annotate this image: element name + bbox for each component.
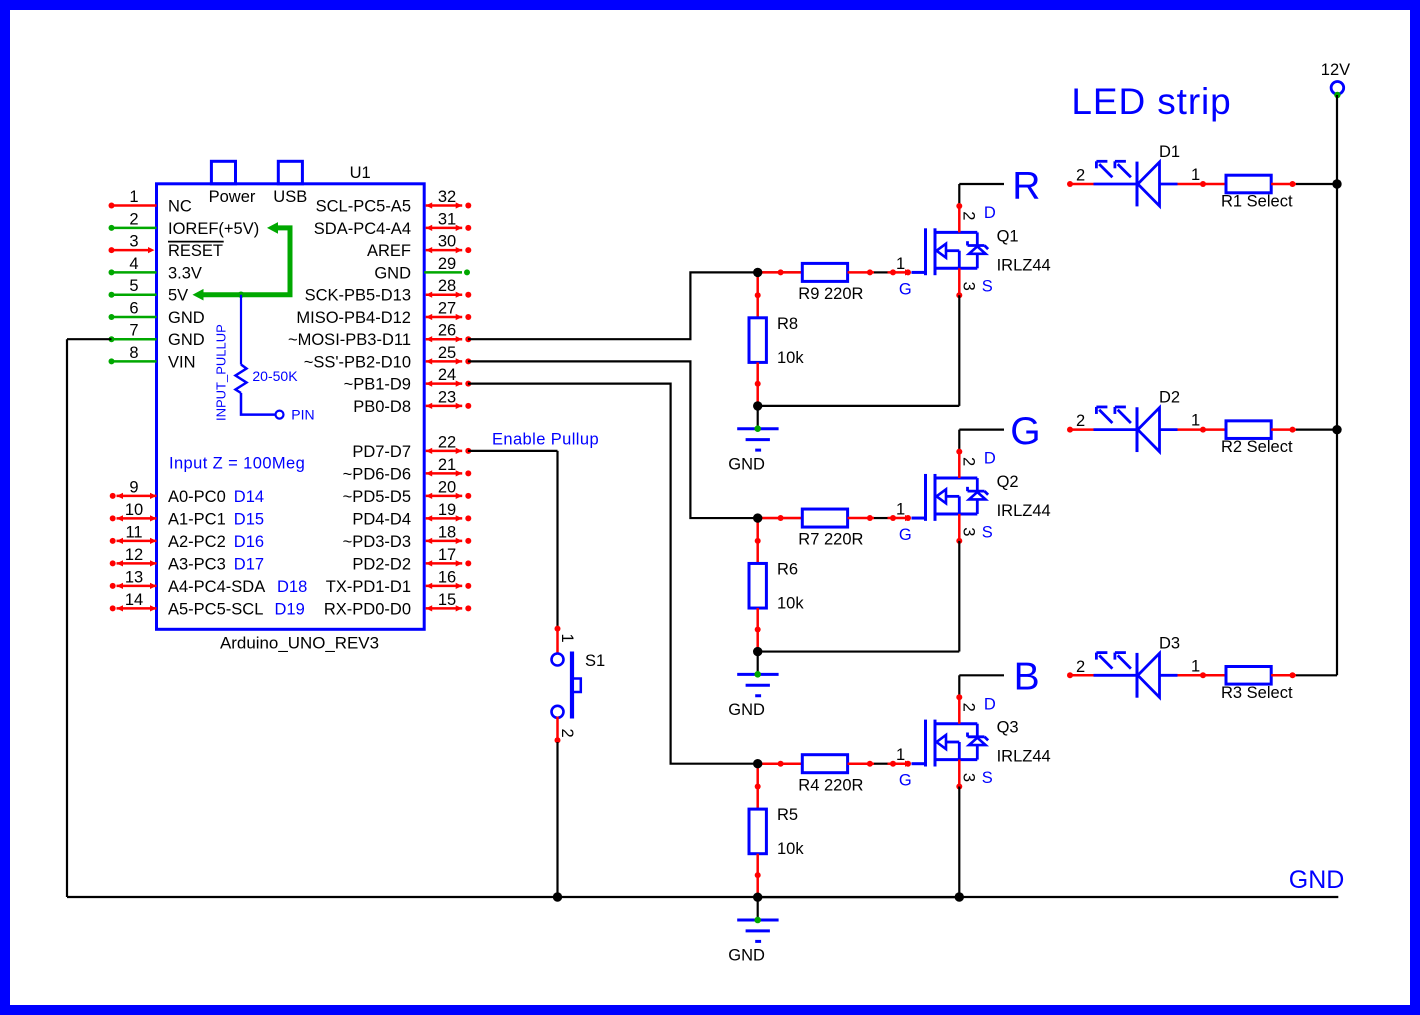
svg-text:SCK-PB5-D13: SCK-PB5-D13 [305,287,411,305]
svg-text:AREF: AREF [367,242,411,260]
svg-text:28: 28 [438,277,456,295]
svg-text:8: 8 [129,344,138,362]
svg-text:S: S [982,523,993,541]
svg-text:~PD6-D6: ~PD6-D6 [343,465,411,483]
svg-text:11: 11 [125,523,142,541]
svg-text:G: G [899,772,912,790]
svg-text:20: 20 [438,478,456,496]
svg-text:24: 24 [438,366,456,384]
svg-text:32: 32 [438,188,456,206]
svg-text:GND: GND [168,309,205,327]
svg-text:12: 12 [125,546,143,564]
svg-text:R2 Select: R2 Select [1221,438,1293,456]
svg-text:INPUT_PULLUP: INPUT_PULLUP [213,324,228,421]
svg-text:1: 1 [1191,657,1200,675]
svg-text:26: 26 [438,322,456,340]
svg-text:4: 4 [129,255,138,273]
svg-text:10: 10 [125,501,143,519]
svg-text:Power: Power [209,188,256,206]
svg-text:S: S [982,769,993,787]
svg-text:NC: NC [168,198,192,216]
svg-text:Q2: Q2 [997,473,1019,491]
svg-text:D19: D19 [275,600,305,618]
svg-text:2: 2 [1076,658,1085,676]
svg-text:IRLZ44: IRLZ44 [997,256,1051,274]
svg-text:TX-PD1-D1: TX-PD1-D1 [326,578,411,596]
svg-text:1: 1 [896,746,905,764]
svg-text:D14: D14 [234,488,264,506]
svg-text:R: R [1012,164,1040,207]
svg-text:Q1: Q1 [997,227,1019,245]
svg-text:R5: R5 [777,806,798,824]
svg-text:GND: GND [168,331,205,349]
svg-text:D17: D17 [234,555,264,573]
svg-text:~PD3-D3: ~PD3-D3 [343,533,411,551]
svg-text:GND: GND [1289,866,1345,894]
svg-text:31: 31 [438,210,456,228]
svg-text:2: 2 [1076,412,1085,430]
svg-text:A1-PC1: A1-PC1 [168,510,226,528]
svg-text:SCL-PC5-A5: SCL-PC5-A5 [316,198,411,216]
svg-text:R1 Select: R1 Select [1221,193,1293,211]
svg-text:D: D [984,695,996,713]
svg-text:18: 18 [438,523,456,541]
svg-text:1: 1 [129,188,138,206]
svg-text:A2-PC2: A2-PC2 [168,533,226,551]
svg-text:SDA-PC4-A4: SDA-PC4-A4 [314,220,411,238]
svg-text:29: 29 [438,255,456,273]
svg-text:A3-PC3: A3-PC3 [168,555,226,573]
svg-text:3: 3 [959,773,977,782]
svg-text:25: 25 [438,344,456,362]
svg-text:Arduino_UNO_REV3: Arduino_UNO_REV3 [220,635,379,653]
svg-text:GND: GND [728,947,765,965]
svg-text:Input Z = 100Meg: Input Z = 100Meg [169,454,305,472]
svg-text:16: 16 [438,568,456,586]
svg-text:5: 5 [129,277,138,295]
svg-text:23: 23 [438,388,456,406]
svg-text:2: 2 [959,703,977,712]
svg-text:R3 Select: R3 Select [1221,684,1293,702]
svg-text:~MOSI-PB3-D11: ~MOSI-PB3-D11 [288,331,411,349]
svg-text:6: 6 [129,300,138,318]
svg-text:A0-PC0: A0-PC0 [168,488,226,506]
svg-text:RX-PD0-D0: RX-PD0-D0 [324,600,411,618]
svg-text:R7 220R: R7 220R [798,531,863,549]
svg-text:1: 1 [896,255,905,273]
svg-text:D16: D16 [234,533,264,551]
svg-text:2: 2 [558,729,576,738]
svg-text:~PB1-D9: ~PB1-D9 [344,376,411,394]
svg-text:2: 2 [1076,167,1085,185]
svg-text:14: 14 [125,591,143,609]
svg-text:2: 2 [959,211,977,220]
svg-text:10k: 10k [777,595,804,613]
svg-text:S1: S1 [585,652,605,670]
svg-text:15: 15 [438,591,456,609]
svg-text:PD4-D4: PD4-D4 [352,510,411,528]
svg-text:19: 19 [438,501,456,519]
svg-text:1: 1 [896,500,905,518]
svg-text:3: 3 [129,233,138,251]
svg-text:IRLZ44: IRLZ44 [997,502,1051,520]
svg-text:GND: GND [728,701,765,719]
svg-text:RESET: RESET [168,242,223,260]
svg-text:20-50K: 20-50K [252,368,298,384]
svg-text:2: 2 [959,457,977,466]
svg-text:USB: USB [273,188,307,206]
svg-text:21: 21 [438,456,456,474]
svg-text:PIN: PIN [291,406,314,422]
svg-text:3.3V: 3.3V [168,264,202,282]
svg-text:17: 17 [438,546,456,564]
svg-text:D15: D15 [234,510,264,528]
svg-text:D: D [984,450,996,468]
svg-text:10k: 10k [777,349,804,367]
svg-text:G: G [899,526,912,544]
svg-text:R9 220R: R9 220R [798,285,863,303]
svg-text:27: 27 [438,300,456,318]
svg-text:S: S [982,278,993,296]
svg-text:9: 9 [129,478,138,496]
svg-text:D: D [984,204,996,222]
svg-text:B: B [1014,656,1040,699]
svg-text:G: G [899,280,912,298]
svg-text:2: 2 [129,210,138,228]
svg-text:Enable Pullup: Enable Pullup [492,430,599,448]
svg-text:R4 220R: R4 220R [798,776,863,794]
svg-text:1: 1 [558,634,576,643]
svg-text:5V: 5V [168,287,188,305]
svg-text:1: 1 [1191,412,1200,430]
svg-text:R8: R8 [777,315,798,333]
svg-text:MISO-PB4-D12: MISO-PB4-D12 [296,309,411,327]
svg-text:U1: U1 [350,164,371,182]
svg-text:D2: D2 [1159,389,1180,407]
svg-text:~SS'-PB2-D10: ~SS'-PB2-D10 [304,353,411,371]
svg-text:IOREF(+5V): IOREF(+5V) [168,220,259,238]
svg-text:PD2-D2: PD2-D2 [352,555,411,573]
svg-text:Q3: Q3 [997,719,1019,737]
svg-text:12V: 12V [1321,61,1350,79]
svg-text:~PD5-D5: ~PD5-D5 [343,488,411,506]
svg-text:30: 30 [438,233,456,251]
svg-text:D3: D3 [1159,634,1180,652]
svg-text:D1: D1 [1159,143,1180,161]
svg-text:3: 3 [959,527,977,536]
svg-text:GND: GND [728,455,765,473]
svg-text:10k: 10k [777,840,804,858]
svg-text:GND: GND [374,264,411,282]
svg-text:LED strip: LED strip [1071,81,1231,122]
svg-text:VIN: VIN [168,353,196,371]
svg-text:A5-PC5-SCL: A5-PC5-SCL [168,600,263,618]
svg-text:PB0-D8: PB0-D8 [353,398,411,416]
svg-text:22: 22 [438,433,456,451]
svg-text:G: G [1010,410,1040,453]
svg-text:R6: R6 [777,561,798,579]
svg-text:1: 1 [1191,166,1200,184]
svg-text:D18: D18 [277,578,307,596]
svg-text:7: 7 [129,322,138,340]
svg-text:PD7-D7: PD7-D7 [352,443,411,461]
svg-text:13: 13 [125,568,143,586]
svg-text:IRLZ44: IRLZ44 [997,748,1051,766]
svg-text:3: 3 [959,282,977,291]
svg-text:A4-PC4-SDA: A4-PC4-SDA [168,578,265,596]
